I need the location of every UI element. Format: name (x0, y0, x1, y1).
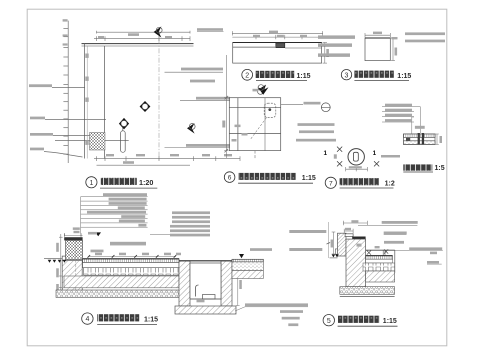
svg-text:1:20: 1:20 (139, 178, 153, 187)
svg-text:5: 5 (327, 318, 331, 325)
svg-text:1: 1 (373, 150, 377, 157)
svg-text:4: 4 (85, 316, 89, 323)
svg-text:3: 3 (345, 72, 349, 79)
svg-text:1: 1 (324, 150, 328, 157)
svg-text:1:15: 1:15 (302, 175, 316, 182)
svg-text:1:2: 1:2 (385, 180, 395, 187)
svg-text:6: 6 (228, 175, 232, 182)
svg-text:2: 2 (245, 72, 249, 79)
svg-text:7: 7 (329, 180, 333, 187)
svg-text:1:15: 1:15 (144, 316, 158, 323)
svg-text:1:5: 1:5 (435, 165, 445, 172)
svg-text:1: 1 (89, 180, 93, 187)
svg-text:1:15: 1:15 (297, 73, 311, 80)
svg-text:1:15: 1:15 (397, 73, 411, 80)
svg-text:1:15: 1:15 (383, 318, 397, 325)
